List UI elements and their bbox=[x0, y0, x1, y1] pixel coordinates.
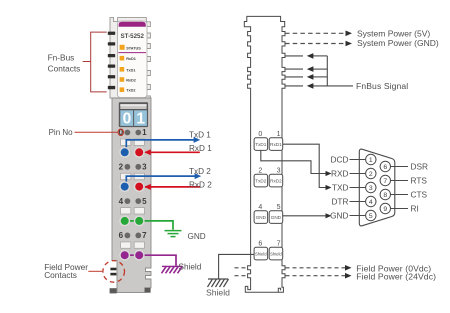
svg-text:2: 2 bbox=[119, 163, 124, 172]
wire RxD1 to RXD bbox=[283, 144, 326, 187]
field power contacts dashed circle bbox=[103, 261, 125, 283]
LED STATUS bbox=[120, 45, 125, 50]
field power dashed wires bbox=[235, 267, 247, 269]
wire System Power 5V (dashed) bbox=[285, 32, 346, 34]
FnBus contact pins (black, left edge) bbox=[108, 32, 115, 90]
svg-text:4: 4 bbox=[369, 199, 373, 206]
svg-text:RxD 1: RxD 1 bbox=[189, 144, 212, 153]
front panel bbox=[118, 21, 148, 98]
DB9 pin 9 bbox=[380, 203, 390, 213]
wire hole pin2 (blue) bbox=[120, 182, 129, 191]
wire hole pin4 (green) bbox=[120, 216, 129, 225]
svg-text:RxD2: RxD2 bbox=[270, 179, 282, 184]
wire hole pin1 (red) bbox=[135, 148, 144, 157]
svg-text:3: 3 bbox=[142, 163, 147, 172]
svg-text:TxD 2: TxD 2 bbox=[189, 167, 211, 176]
svg-text:5: 5 bbox=[277, 204, 281, 211]
svg-text:Contacts: Contacts bbox=[48, 64, 81, 74]
svg-text:Shield: Shield bbox=[206, 287, 230, 297]
svg-text:RTS: RTS bbox=[411, 175, 428, 185]
earth shield symbol (black) bbox=[208, 278, 228, 280]
svg-text:7: 7 bbox=[277, 241, 281, 248]
DB9 pin 6 bbox=[380, 161, 390, 171]
svg-text:7: 7 bbox=[383, 178, 387, 185]
svg-text:5: 5 bbox=[369, 213, 373, 220]
svg-text:6: 6 bbox=[383, 164, 387, 171]
svg-text:RXD: RXD bbox=[331, 168, 349, 178]
DB9 connector DSUB bbox=[359, 149, 395, 226]
svg-text:3: 3 bbox=[369, 185, 373, 192]
wire GND (green) bbox=[125, 221, 173, 230]
wire hole pin7 (purple) bbox=[135, 251, 144, 260]
svg-text:GND: GND bbox=[256, 215, 267, 220]
svg-text:RI: RI bbox=[411, 203, 419, 213]
svg-text:5: 5 bbox=[142, 197, 147, 206]
svg-text:TxD1: TxD1 bbox=[126, 68, 135, 72]
wire System Power GND (dashed) bbox=[285, 43, 346, 45]
svg-text:System Power (5V): System Power (5V) bbox=[357, 28, 430, 38]
svg-text:GND: GND bbox=[330, 210, 348, 220]
svg-text:0: 0 bbox=[123, 111, 132, 128]
DB9 pin 3 bbox=[366, 182, 376, 192]
svg-text:RxD 2: RxD 2 bbox=[189, 181, 212, 190]
panel purple top bar bbox=[119, 22, 146, 27]
label CTS bbox=[391, 194, 408, 196]
svg-text:Contacts: Contacts bbox=[44, 270, 77, 280]
wire Shield to earth bbox=[219, 254, 255, 278]
svg-text:Fn-Bus: Fn-Bus bbox=[48, 52, 75, 62]
svg-text:FnBus Signal: FnBus Signal bbox=[356, 81, 408, 91]
svg-text:TXD: TXD bbox=[332, 182, 349, 192]
svg-text:DTR: DTR bbox=[331, 196, 348, 206]
bottom right clamp hook bbox=[278, 288, 280, 292]
svg-text:Shield: Shield bbox=[179, 263, 202, 272]
terminal cross-section outline (right module) bbox=[244, 16, 285, 292]
wire TxD2 (blue) bbox=[126, 176, 197, 184]
svg-text:9: 9 bbox=[383, 206, 387, 213]
svg-text:TxD2: TxD2 bbox=[255, 179, 266, 184]
label RI bbox=[391, 208, 408, 210]
svg-text:Shield: Shield bbox=[270, 252, 282, 257]
LED RxD2 bbox=[120, 77, 125, 82]
svg-text:4: 4 bbox=[258, 204, 262, 211]
svg-text:8: 8 bbox=[383, 192, 387, 199]
svg-text:TxD2: TxD2 bbox=[126, 89, 135, 93]
svg-text:DSR: DSR bbox=[411, 161, 429, 171]
terminal slots bbox=[121, 139, 145, 248]
svg-text:RxD2: RxD2 bbox=[126, 79, 136, 83]
label RTS bbox=[391, 180, 408, 182]
svg-text:0: 0 bbox=[258, 131, 262, 138]
svg-text:4: 4 bbox=[119, 197, 124, 206]
svg-text:2: 2 bbox=[369, 171, 373, 178]
svg-text:6: 6 bbox=[119, 231, 124, 240]
svg-text:STATUS: STATUS bbox=[126, 46, 141, 50]
label DSR bbox=[391, 166, 408, 168]
field power contact tabs bbox=[110, 268, 116, 271]
leader Pin No (red) bbox=[75, 131, 119, 133]
svg-text:1: 1 bbox=[142, 128, 147, 137]
svg-text:GND: GND bbox=[188, 232, 206, 241]
DB9 pin 8 bbox=[380, 189, 390, 199]
panel separator line bbox=[118, 52, 146, 54]
LED RxD1 bbox=[120, 56, 125, 61]
wire GND to GND bbox=[283, 215, 326, 217]
arrows into DB9 labels bbox=[326, 171, 332, 176]
DB9 pin 5 bbox=[366, 210, 376, 220]
bracket Fn-Bus (red) bbox=[83, 32, 107, 92]
wire TxD1 (blue) bbox=[126, 140, 196, 150]
svg-text:3: 3 bbox=[277, 168, 281, 175]
wire hole pin6 (purple) bbox=[120, 251, 129, 260]
svg-text:GND: GND bbox=[271, 215, 282, 220]
wire RxD1 (red) bbox=[145, 151, 200, 153]
wire hole pin5 (green) bbox=[135, 216, 144, 225]
LED TxD1 bbox=[120, 67, 125, 72]
module U1 lower housing bbox=[112, 98, 151, 293]
address selector 01 bbox=[119, 102, 148, 127]
svg-text:RxD1: RxD1 bbox=[126, 57, 136, 61]
LED TxD2 bbox=[120, 87, 125, 92]
svg-text:RxD1: RxD1 bbox=[270, 142, 282, 147]
svg-text:System Power (GND): System Power (GND) bbox=[357, 38, 439, 48]
svg-text:6: 6 bbox=[258, 241, 262, 248]
svg-text:Field Power (24Vdc): Field Power (24Vdc) bbox=[356, 271, 436, 281]
svg-text:DCD: DCD bbox=[331, 154, 349, 164]
svg-text:Pin No: Pin No bbox=[49, 128, 74, 137]
wire TxD1 to TXD bbox=[261, 150, 326, 173]
svg-text:1: 1 bbox=[369, 157, 373, 164]
svg-text:ST-5252: ST-5252 bbox=[121, 33, 145, 40]
svg-text:2: 2 bbox=[258, 168, 262, 175]
wire hole pin0 (blue) bbox=[120, 148, 129, 157]
wire Shield (purple) bbox=[125, 255, 176, 266]
leader field power (red) bbox=[88, 270, 102, 272]
DB9 pin 2 bbox=[366, 168, 376, 178]
svg-text:CTS: CTS bbox=[411, 189, 428, 199]
svg-text:1: 1 bbox=[277, 131, 281, 138]
svg-text:TxD 1: TxD 1 bbox=[189, 131, 211, 140]
wire hole pin3 (red) bbox=[135, 182, 144, 191]
wire RxD2 (red) bbox=[145, 186, 200, 188]
svg-text:Shield: Shield bbox=[255, 252, 267, 257]
svg-text:TxD1: TxD1 bbox=[255, 142, 266, 147]
module U1 top housing (ST-5252 terminal, left) bbox=[110, 18, 150, 98]
DB9 pin 7 bbox=[380, 175, 390, 185]
FnBus signal wires bbox=[285, 56, 353, 86]
foot left bbox=[110, 288, 117, 293]
svg-text:1: 1 bbox=[136, 111, 145, 128]
svg-text:7: 7 bbox=[142, 231, 147, 240]
DB9 pin 1 bbox=[366, 154, 376, 164]
DB9 pin 4 bbox=[366, 196, 376, 206]
foot right bbox=[145, 288, 151, 293]
